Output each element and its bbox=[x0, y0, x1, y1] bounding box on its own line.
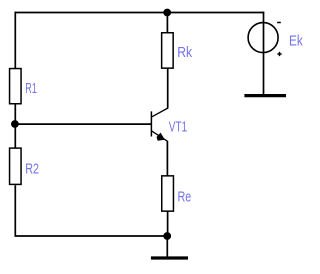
wire left rail lower bbox=[15, 185, 167, 236]
svg-text:R2: R2 bbox=[25, 161, 39, 178]
node junction left (base divider) bbox=[11, 120, 19, 128]
svg-text:Re: Re bbox=[178, 189, 192, 206]
collector diagonal bbox=[152, 108, 168, 117]
svg-text:Ek: Ek bbox=[289, 32, 303, 49]
emitter arrow bbox=[157, 133, 165, 141]
emitter diagonal bbox=[152, 131, 168, 141]
resistor Rk bbox=[162, 33, 174, 68]
transistor VT1 bbox=[151, 108, 168, 141]
wire Re bottom bbox=[167, 212, 169, 237]
svg-text:Rk: Rk bbox=[177, 44, 192, 61]
wire ground stem bottom bbox=[166, 236, 168, 257]
wire top rail bbox=[15, 12, 265, 14]
minus sign bbox=[277, 22, 281, 24]
svg-text:VT1: VT1 bbox=[169, 119, 187, 136]
ground right bbox=[244, 94, 286, 97]
resistor R1 bbox=[10, 69, 21, 104]
wire collector bbox=[167, 69, 169, 109]
svg-text:R1: R1 bbox=[25, 80, 37, 97]
wire right rail bbox=[263, 12, 265, 95]
resistor R2 bbox=[10, 148, 21, 184]
wire left rail upper bbox=[14, 12, 16, 69]
ground bottom bbox=[151, 256, 188, 259]
wire R1 to R2 bbox=[14, 104, 16, 148]
wire emitter bbox=[166, 141, 168, 176]
plus sign bbox=[277, 52, 281, 56]
source Ek circle bbox=[248, 23, 278, 53]
wire base bbox=[15, 123, 152, 125]
node junction top rail bbox=[163, 9, 171, 17]
node junction bottom bbox=[163, 232, 171, 240]
resistor Re bbox=[162, 176, 174, 211]
wire Rk top bbox=[166, 12, 168, 33]
base bar bbox=[150, 111, 152, 136]
